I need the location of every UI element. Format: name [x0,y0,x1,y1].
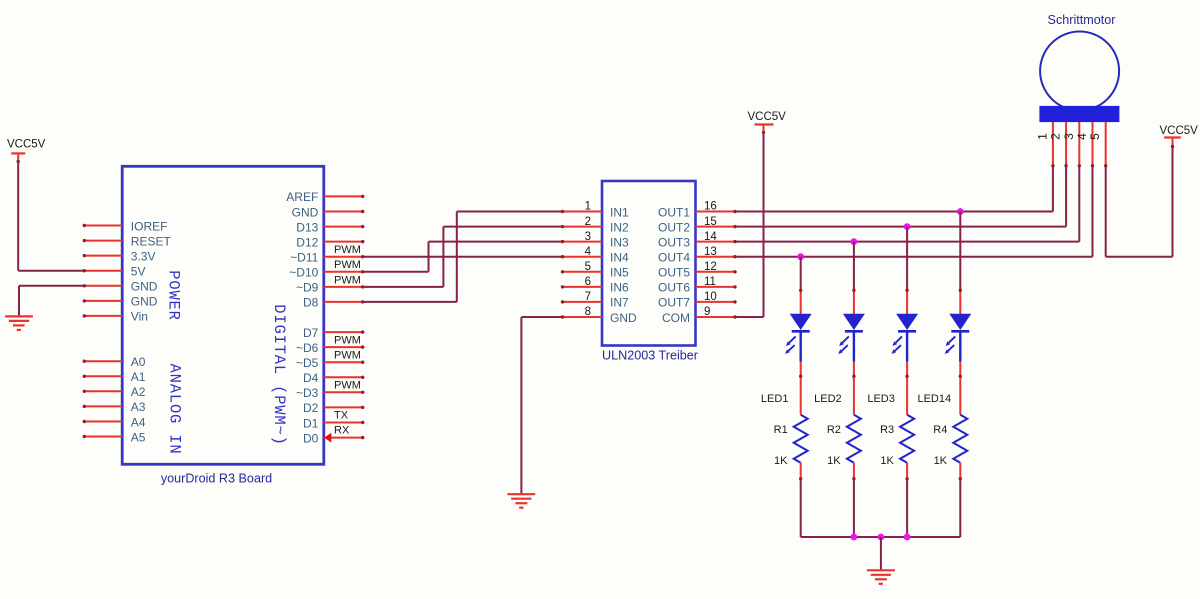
svg-text:VCC5V: VCC5V [1160,125,1199,137]
svg-text:A2: A2 [131,385,146,399]
power symbol VCC5V (middle) [748,111,787,134]
wire COM to VCC5V [736,132,764,317]
svg-text:IN3: IN3 [610,235,629,249]
wire rail to ground [880,537,882,570]
svg-text:RX: RX [334,424,350,436]
svg-text:LED14: LED14 [917,393,951,405]
resistor R3 [900,375,914,481]
junction node rail/LED2 [851,534,858,541]
wire VCC5V to Arduino 5V pin [18,161,83,271]
svg-text:12: 12 [704,261,717,273]
ULN2003 pin numbers 1-8 [585,201,592,319]
svg-text:D7: D7 [303,326,319,340]
wire R1 to ground rail [800,479,802,537]
svg-text:IN1: IN1 [610,205,629,219]
svg-text:LED3: LED3 [867,393,895,405]
svg-text:OUT6: OUT6 [658,281,690,295]
wire junction to LED2 anode [853,242,855,291]
svg-text:1: 1 [1035,133,1049,140]
svg-text:~D9: ~D9 [296,281,319,295]
RX arrow on D0 pin [324,433,331,443]
svg-text:D1: D1 [303,416,319,430]
wire OUT1 to motor pin 1 [736,167,1053,212]
wire ~D10 to IN3 [364,242,562,272]
junction node OUT2/LED3 [904,223,911,230]
PWM markers [334,244,361,392]
svg-text:PWM: PWM [334,350,361,362]
svg-text:14: 14 [704,231,717,243]
svg-text:PWM: PWM [334,244,361,256]
svg-text:A3: A3 [131,400,146,414]
svg-text:6: 6 [585,276,591,288]
svg-text:1: 1 [585,201,591,213]
junction node OUT3/LED2 [851,238,858,245]
svg-text:~D11: ~D11 [290,251,318,265]
svg-text:IN2: IN2 [610,220,629,234]
svg-text:13: 13 [704,246,717,258]
svg-text:A5: A5 [131,430,146,444]
svg-text:2: 2 [585,216,591,228]
ground symbol (left) [5,316,33,330]
wire junction to LED14 anode [959,212,961,291]
svg-text:4: 4 [1075,133,1089,140]
Arduino right pin labels [286,190,318,445]
svg-text:D13: D13 [296,220,318,234]
svg-text:15: 15 [704,216,717,228]
resistor R4 [953,375,967,481]
ground symbol (bottom) [867,570,895,584]
svg-text:GND: GND [131,295,158,309]
wire junction to LED3 anode [906,227,908,291]
svg-text:1K: 1K [827,455,841,467]
svg-text:~D3: ~D3 [296,386,319,400]
Arduino left pin legs IOREF..Vin A0..A5 [83,224,123,438]
svg-text:IOREF: IOREF [131,219,168,233]
svg-text:LED2: LED2 [814,393,842,405]
LED LED3 [891,289,918,377]
svg-text:~D5: ~D5 [296,356,319,370]
svg-text:~D10: ~D10 [289,266,318,280]
junction node rail/LED3 [904,534,911,541]
svg-text:OUT5: OUT5 [658,266,690,280]
svg-text:OUT4: OUT4 [658,251,690,265]
svg-text:OUT7: OUT7 [658,296,690,310]
svg-text:RESET: RESET [131,234,172,248]
svg-text:PWM: PWM [334,274,361,286]
ULN2003 U2 outline [602,181,696,346]
svg-text:10: 10 [704,291,717,303]
LED LED1 [785,289,812,377]
svg-text:R4: R4 [933,424,947,436]
svg-text:~D6: ~D6 [296,341,319,355]
svg-text:DIGITAL (PWM~): DIGITAL (PWM~) [270,304,288,445]
ULN2003 pin numbers 16-9 [704,201,717,319]
svg-text:IN4: IN4 [610,251,629,265]
svg-text:D2: D2 [303,401,319,415]
Arduino board U1 outline [122,166,324,464]
stepper motor M1 body [1039,32,1119,123]
Arduino left pin labels [131,219,172,444]
svg-text:4: 4 [585,246,592,258]
svg-text:2: 2 [1049,133,1063,140]
svg-text:3: 3 [1062,133,1076,140]
svg-text:1K: 1K [774,455,788,467]
wire ~D9 to IN2 [364,227,562,287]
svg-text:TX: TX [334,409,349,421]
svg-text:LED1: LED1 [761,393,789,405]
svg-text:GND: GND [292,205,319,219]
svg-text:1K: 1K [880,455,894,467]
svg-text:11: 11 [704,276,716,288]
junction node OUT4/LED1 [797,253,804,260]
svg-text:OUT3: OUT3 [658,235,690,249]
svg-text:Vin: Vin [131,310,148,324]
stepper motor pin legs 1-5 [1051,122,1107,168]
svg-text:IN7: IN7 [610,296,629,310]
svg-text:VCC5V: VCC5V [7,139,46,151]
power symbol VCC5V (left) [7,139,46,164]
wire D8 to IN1 [364,212,562,302]
svg-text:R1: R1 [774,424,788,436]
svg-text:AREF: AREF [286,190,318,204]
svg-text:GND: GND [610,311,637,325]
svg-text:A1: A1 [131,370,146,384]
LED LED2 [838,289,865,377]
svg-text:PWM: PWM [334,380,361,392]
svg-text:R2: R2 [827,424,841,436]
stepper motor pin numbers 1-5 [1035,133,1102,140]
svg-text:D4: D4 [303,371,319,385]
svg-text:A4: A4 [131,415,146,429]
resistor R2 [847,375,861,481]
svg-text:A0: A0 [131,355,146,369]
svg-text:OUT2: OUT2 [658,220,690,234]
svg-text:VCC5V: VCC5V [748,111,787,123]
svg-text:8: 8 [585,306,591,318]
ground symbol (middle) [507,494,535,508]
wire R4 to ground rail [959,479,961,537]
wire R2 to ground rail [853,479,855,537]
svg-text:OUT1: OUT1 [658,205,690,219]
svg-text:PWM: PWM [334,335,361,347]
wire R3 to ground rail [906,479,908,537]
ULN2003 right pin labels [658,205,690,324]
power symbol VCC5V (right) [1160,125,1199,148]
wire ULN GND to ground [521,317,561,494]
junction node rail/ground stem [878,534,885,541]
svg-text:Schrittmotor: Schrittmotor [1048,13,1116,27]
wire OUT4 to motor pin 4 [736,167,1093,257]
svg-text:9: 9 [704,306,710,318]
svg-text:COM: COM [662,311,690,325]
svg-text:5: 5 [1088,133,1102,140]
svg-text:PWM: PWM [334,259,361,271]
LED LED14 [945,289,972,377]
svg-text:3: 3 [585,231,591,243]
svg-text:R3: R3 [880,424,894,436]
wire motor pin 5 to VCC5V [1106,146,1173,257]
ULN2003 left pin legs 1-8 [561,210,602,319]
junction node OUT1/LED14 [957,208,964,215]
wire junction to LED1 anode [800,257,802,291]
svg-text:1K: 1K [934,455,948,467]
svg-text:16: 16 [704,201,717,213]
Arduino right pin legs AREF..D0 [324,195,365,440]
wire Arduino GND pin to ground [19,286,84,317]
svg-text:D8: D8 [303,296,319,310]
svg-text:IN6: IN6 [610,281,629,295]
ground rail wire [801,536,961,538]
wire OUT3 to motor pin 3 [736,167,1080,242]
svg-text:D0: D0 [303,431,319,445]
svg-text:POWER: POWER [165,270,183,321]
svg-text:3.3V: 3.3V [131,249,156,263]
ULN2003 right pin legs 16-9 [696,210,737,319]
svg-text:7: 7 [585,291,591,303]
svg-text:5V: 5V [131,265,146,279]
svg-text:ANALOG IN: ANALOG IN [166,364,184,455]
svg-text:5: 5 [585,261,591,273]
ULN2003 left pin labels [610,205,637,324]
resistor R1 [794,375,808,481]
svg-text:GND: GND [131,280,158,294]
svg-text:ULN2003 Treiber: ULN2003 Treiber [602,348,698,362]
svg-text:yourDroid R3 Board: yourDroid R3 Board [161,471,272,485]
svg-text:D12: D12 [296,235,318,249]
wire ~D11 to IN4 [364,256,562,258]
svg-text:IN5: IN5 [610,266,629,280]
wire OUT2 to motor pin 2 [736,167,1066,227]
